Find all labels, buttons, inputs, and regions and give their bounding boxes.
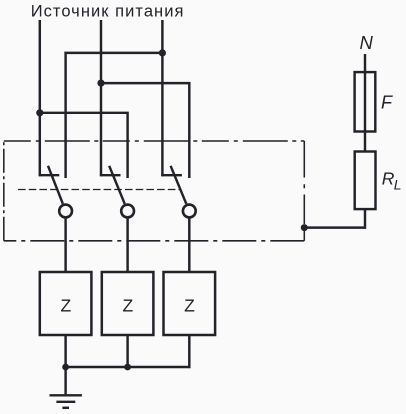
svg-text:Z: Z — [60, 296, 71, 316]
svg-text:Источник питания: Источник питания — [31, 3, 185, 21]
svg-text:N: N — [360, 32, 374, 53]
svg-text:Z: Z — [122, 296, 133, 316]
svg-text:L: L — [394, 176, 402, 192]
svg-text:Z: Z — [184, 296, 195, 316]
svg-text:F: F — [381, 92, 393, 112]
